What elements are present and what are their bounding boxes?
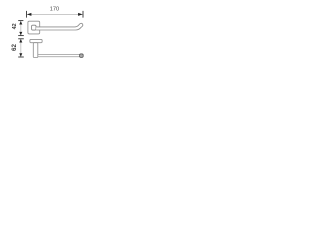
wall plate cap (top view) [30,39,42,42]
svg-text:170: 170 [50,7,59,13]
arrow up 62 [19,39,22,43]
arrow up 42 [19,21,22,25]
tick top 42 [18,20,23,22]
arrow down 42 [19,32,22,36]
rail with hook (front view) [36,23,83,30]
extension line right 170 [82,11,84,18]
tick top 62 [18,38,24,40]
arrow down 62 [19,53,22,57]
tick bottom 62 [18,56,24,58]
rail top line (top view) [38,54,81,56]
arrow left 170 [27,13,32,16]
rail end cap (top view) [80,54,84,58]
dimension line 42 [20,21,22,36]
svg-text:42: 42 [12,23,18,29]
extension line left 170 [26,11,28,18]
mount square inner (front view) [32,25,36,30]
arrow right 170 [78,13,83,16]
dimension line 170 [27,13,83,15]
tick bottom 42 [18,35,24,37]
mount post (top view) [33,43,38,58]
dimension line 62 [20,39,22,57]
svg-text:62: 62 [11,44,18,51]
wall plate outer (front view) [28,21,40,34]
rail bottom line (top view) [38,56,81,58]
